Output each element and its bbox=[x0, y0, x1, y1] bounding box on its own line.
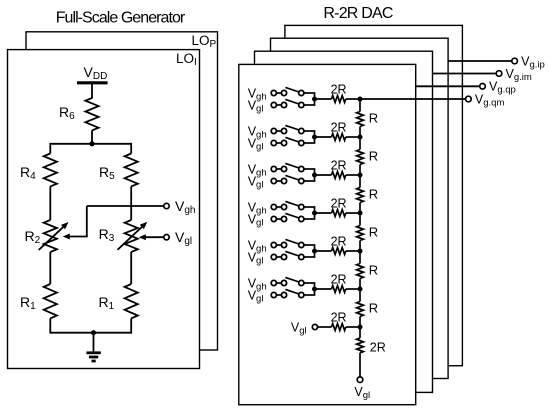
wire switch throw to output bar row 5 (V_gl) bbox=[304, 256, 315, 258]
wire V_gh terminal to switch pole row 6 bbox=[277, 282, 282, 284]
wire ladder segment 2 lower bbox=[359, 165, 361, 176]
box LO_P (outer, full-scale generator P-path) bbox=[26, 32, 218, 350]
ground bbox=[86, 351, 100, 354]
svg-text:R: R bbox=[369, 301, 378, 316]
wire ladder segment 3 bbox=[359, 175, 361, 188]
switch Sgh2 lever row 2 bbox=[285, 125, 299, 130]
wire ladder segment 4 lower bbox=[359, 241, 361, 252]
R3 adjustment arrowhead bbox=[140, 222, 148, 229]
node row 4 bbox=[312, 211, 317, 216]
svg-text:2R: 2R bbox=[331, 197, 347, 211]
svg-text:LOI: LOI bbox=[176, 51, 197, 68]
wire R1 to bottom rail bbox=[49, 318, 51, 333]
wire to 2R row 6 bbox=[315, 288, 332, 290]
svg-text:Full-Scale Generator: Full-Scale Generator bbox=[56, 10, 186, 27]
terminal V_gh row 5 bbox=[271, 242, 276, 247]
node ladder 7 bbox=[358, 325, 363, 330]
resistor 2R row 6 bbox=[332, 286, 346, 293]
wire 2R to ladder row 4 bbox=[346, 212, 360, 214]
wire 2R to ladder row 7 bbox=[346, 326, 360, 328]
switch Sgl5 lever row 5 bbox=[285, 251, 299, 256]
node ladder 3 bbox=[358, 173, 363, 178]
node ladder 2 bbox=[358, 135, 363, 140]
VDD supply bar bbox=[77, 81, 108, 84]
wire V_gh terminal to switch pole row 1 bbox=[277, 92, 282, 94]
wire R1 to bottom rail bbox=[130, 318, 132, 333]
terminal V_gh row 1 bbox=[271, 90, 276, 95]
node row 2 bbox=[312, 135, 317, 140]
svg-text:2R: 2R bbox=[331, 235, 347, 249]
svg-text:Vg.qp: Vg.qp bbox=[489, 80, 516, 96]
resistor 2R bottom bbox=[357, 338, 364, 353]
wire to ground bbox=[93, 333, 95, 352]
wire switch throw to output bar row 3 (V_gl) bbox=[304, 180, 315, 182]
resistor 2R row 1 bbox=[332, 96, 346, 103]
wire switch throw to output bar row 1 (V_gh) bbox=[304, 92, 315, 94]
terminal V_gl row 4 bbox=[271, 216, 276, 221]
terminal Vg.qm bbox=[466, 96, 472, 102]
resistor R1 (left) bbox=[44, 284, 57, 318]
wire switch throw to output bar row 6 (V_gl) bbox=[304, 294, 315, 296]
R2 adjustment arrow bbox=[39, 226, 65, 250]
switch Sgl5 throw row 5 bbox=[299, 254, 304, 259]
wire R5 to R3 bbox=[130, 186, 132, 220]
terminal V_gl row 6 bbox=[271, 292, 276, 297]
wire 2R to ladder row 3 bbox=[346, 174, 360, 176]
wire switch throw to output bar row 4 (V_gh) bbox=[304, 206, 315, 208]
terminal Vg.im bbox=[496, 71, 502, 77]
switch Sgl2 throw row 2 bbox=[299, 140, 304, 145]
switch Sgh3 lever row 3 bbox=[285, 163, 299, 168]
wire 2R to ladder row 1 bbox=[346, 98, 360, 100]
wire V_gl terminal to switch pole row 2 bbox=[277, 142, 282, 144]
svg-text:R: R bbox=[369, 187, 378, 202]
wire ladder to 2R bottom bbox=[359, 327, 361, 338]
wire V_gh terminal to switch pole row 4 bbox=[277, 206, 282, 208]
terminal V_gl row 5 bbox=[271, 254, 276, 259]
terminal V_gh row 6 bbox=[271, 280, 276, 285]
resistor R ladder 4 bbox=[357, 226, 364, 241]
svg-text:2R: 2R bbox=[370, 341, 386, 355]
resistor R1 (right) bbox=[125, 284, 138, 318]
resistor R6 bbox=[85, 98, 98, 130]
wire R2 wiper horizontal bbox=[69, 236, 88, 238]
switch Sgl2 pole row 2 bbox=[281, 140, 286, 145]
terminal V_gl row 2 bbox=[271, 140, 276, 145]
switch Sgl5 pole row 5 bbox=[281, 254, 286, 259]
terminal Vg.ip bbox=[512, 58, 518, 64]
wire 2R to ladder row 5 bbox=[346, 250, 360, 252]
resistor R ladder 1 bbox=[357, 112, 364, 127]
terminal Vg.qp bbox=[480, 84, 486, 90]
resistor R4 bbox=[44, 154, 57, 187]
node ladder 1 bbox=[358, 97, 363, 102]
R2 wiper arrowhead bbox=[63, 234, 70, 240]
switch Sgh4 pole row 4 bbox=[281, 204, 286, 209]
switch Sgh6 pole row 6 bbox=[281, 280, 286, 285]
switch Sgh1 lever row 1 bbox=[285, 87, 299, 92]
switch Sgh2 pole row 2 bbox=[281, 128, 286, 133]
switch Sgh6 throw row 6 bbox=[299, 280, 304, 285]
wire ladder segment 1 bbox=[359, 99, 361, 112]
switch output bar row 3 bbox=[314, 169, 316, 181]
wire R2 to R1 bbox=[49, 252, 51, 284]
node: bottom rail junction bbox=[91, 330, 96, 335]
resistor 2R row 2 bbox=[332, 134, 346, 141]
wire ladder segment 2 bbox=[359, 137, 361, 150]
DAC box layer 2 bbox=[255, 51, 433, 392]
switch Sgh5 lever row 5 bbox=[285, 239, 299, 244]
svg-text:2R: 2R bbox=[331, 121, 347, 135]
switch Sgl6 throw row 6 bbox=[299, 292, 304, 297]
switch Sgh4 throw row 4 bbox=[299, 204, 304, 209]
resistor 2R row 3 bbox=[332, 172, 346, 179]
svg-text:R: R bbox=[369, 263, 378, 278]
R2 adjustment arrowhead bbox=[61, 222, 69, 229]
wire ladder segment 5 lower bbox=[359, 279, 361, 290]
wire VDD to R6 bbox=[91, 83, 93, 99]
resistor R ladder 3 bbox=[357, 188, 364, 203]
wire switch throw to output bar row 2 (V_gh) bbox=[304, 130, 315, 132]
wire to 2R row 1 bbox=[315, 98, 332, 100]
wire output Vg.qm bbox=[360, 98, 465, 100]
node row 1 bbox=[312, 97, 317, 102]
switch output bar row 4 bbox=[314, 207, 316, 219]
wire to 2R row 4 bbox=[315, 212, 332, 214]
terminal V_gl row 7 bbox=[312, 324, 317, 329]
resistor 2R row 7 bbox=[332, 324, 346, 331]
switch Sgh3 pole row 3 bbox=[281, 166, 286, 171]
DAC box layer 4 (back) bbox=[285, 25, 463, 365]
R3 adjustment arrow bbox=[118, 226, 144, 250]
terminal V_gh row 3 bbox=[271, 166, 276, 171]
wire V_gh terminal to switch pole row 3 bbox=[277, 168, 282, 170]
wire to 2R row 3 bbox=[315, 174, 332, 176]
switch output bar row 1 bbox=[314, 93, 316, 105]
wire 2R bottom to terminal bbox=[359, 353, 361, 377]
node row 5 bbox=[312, 249, 317, 254]
wire ladder segment 1 lower bbox=[359, 127, 361, 138]
node ladder 6 bbox=[358, 287, 363, 292]
wire V_gl terminal to switch pole row 1 bbox=[277, 104, 282, 106]
node row 6 bbox=[312, 287, 317, 292]
wire ladder segment 3 lower bbox=[359, 203, 361, 214]
wire top rail to R4 bbox=[49, 143, 51, 154]
switch Sgh1 throw row 1 bbox=[299, 90, 304, 95]
wire V_gh terminal to switch pole row 5 bbox=[277, 244, 282, 246]
switch Sgh1 pole row 1 bbox=[281, 90, 286, 95]
switch Sgl1 lever row 1 bbox=[285, 99, 299, 104]
switch Sgl1 throw row 1 bbox=[299, 102, 304, 107]
terminal V_gh row 2 bbox=[271, 128, 276, 133]
resistor R ladder 2 bbox=[357, 150, 364, 165]
wire top rail to R5 bbox=[130, 143, 132, 154]
wire ladder segment 4 bbox=[359, 213, 361, 226]
wire output Vg.qp bbox=[416, 85, 480, 87]
switch Sgl3 throw row 3 bbox=[299, 178, 304, 183]
resistor R3 (variable) bbox=[125, 220, 138, 252]
switch output bar row 5 bbox=[314, 245, 316, 257]
wire 2R to ladder row 2 bbox=[346, 136, 360, 138]
wire top rail bbox=[50, 143, 131, 145]
node: top rail junction bbox=[89, 141, 94, 146]
switch Sgl6 pole row 6 bbox=[281, 292, 286, 297]
terminal V_gl row 1 bbox=[271, 102, 276, 107]
switch Sgl6 lever row 6 bbox=[285, 289, 299, 294]
svg-text:R-2R DAC: R-2R DAC bbox=[323, 5, 392, 22]
DAC box layer 3 bbox=[271, 38, 449, 378]
wire switch throw to output bar row 1 (V_gl) bbox=[304, 104, 315, 106]
svg-text:2R: 2R bbox=[331, 83, 347, 97]
wire V_gl terminal to switch pole row 3 bbox=[277, 180, 282, 182]
wire V_gh terminal to switch pole row 2 bbox=[277, 130, 282, 132]
resistor 2R row 5 bbox=[332, 248, 346, 255]
terminal V_gl row 3 bbox=[271, 178, 276, 183]
node ladder 5 bbox=[358, 249, 363, 254]
switch Sgl3 pole row 3 bbox=[281, 178, 286, 183]
wire 2R to ladder row 6 bbox=[346, 288, 360, 290]
wire switch throw to output bar row 4 (V_gl) bbox=[304, 218, 315, 220]
wire V_gl terminal to switch pole row 5 bbox=[277, 256, 282, 258]
node row 3 bbox=[312, 173, 317, 178]
wire output Vg.im bbox=[433, 73, 496, 75]
wire bottom rail bbox=[50, 332, 131, 334]
wire V_gl terminal to switch pole row 6 bbox=[277, 294, 282, 296]
wire output Vg.ip bbox=[448, 60, 511, 62]
wire switch throw to output bar row 6 (V_gh) bbox=[304, 282, 315, 284]
switch Sgl4 pole row 4 bbox=[281, 216, 286, 221]
switch Sgh5 pole row 5 bbox=[281, 242, 286, 247]
wire R3 wiper / V_gl bbox=[145, 236, 164, 238]
switch Sgl1 pole row 1 bbox=[281, 102, 286, 107]
wire R6 to top rail bbox=[91, 130, 93, 143]
svg-text:R: R bbox=[369, 225, 378, 240]
DAC box layer 1 (front) bbox=[239, 64, 416, 404]
svg-text:Vg.im: Vg.im bbox=[506, 67, 532, 83]
switch Sgl2 lever row 2 bbox=[285, 137, 299, 142]
wire ladder segment 6 bbox=[359, 289, 361, 302]
wire ladder segment 6 lower bbox=[359, 317, 361, 328]
resistor R ladder 6 bbox=[357, 302, 364, 317]
wire V_gl terminal to switch pole row 4 bbox=[277, 218, 282, 220]
switch Sgh2 throw row 2 bbox=[299, 128, 304, 133]
wire R4 to R2 bbox=[49, 186, 51, 220]
svg-text:Vg.ip: Vg.ip bbox=[521, 54, 545, 70]
switch Sgl4 lever row 4 bbox=[285, 213, 299, 218]
svg-text:2R: 2R bbox=[331, 159, 347, 173]
wire R2 wiper vertical bbox=[86, 206, 88, 237]
wire V_gh tap bbox=[87, 205, 166, 207]
switch Sgh3 throw row 3 bbox=[299, 166, 304, 171]
wire to 2R row 2 bbox=[315, 136, 332, 138]
svg-text:R: R bbox=[369, 111, 378, 126]
svg-text:2R: 2R bbox=[331, 311, 347, 325]
switch output bar row 6 bbox=[314, 283, 316, 295]
wire R3 to R1 bbox=[130, 252, 132, 284]
terminal V_gh row 4 bbox=[271, 204, 276, 209]
wire ladder segment 5 bbox=[359, 251, 361, 264]
wire to 2R row 5 bbox=[315, 250, 332, 252]
terminal V_gl bbox=[164, 235, 169, 240]
R3 wiper arrowhead bbox=[139, 234, 146, 240]
svg-text:2R: 2R bbox=[331, 273, 347, 287]
switch Sgl4 throw row 4 bbox=[299, 216, 304, 221]
terminal V_gh bbox=[164, 203, 169, 208]
resistor R5 bbox=[125, 154, 138, 187]
resistor R ladder 5 bbox=[357, 264, 364, 279]
wire switch throw to output bar row 3 (V_gh) bbox=[304, 168, 315, 170]
resistor 2R row 4 bbox=[332, 210, 346, 217]
box LO_I (inner, full-scale generator I-path) bbox=[8, 50, 200, 369]
resistor R2 (variable) bbox=[44, 220, 57, 252]
switch Sgh5 throw row 5 bbox=[299, 242, 304, 247]
switch Sgl3 lever row 3 bbox=[285, 175, 299, 180]
wire to 2R row 7 bbox=[318, 326, 332, 328]
wire switch throw to output bar row 2 (V_gl) bbox=[304, 142, 315, 144]
switch Sgh4 lever row 4 bbox=[285, 201, 299, 206]
switch output bar row 2 bbox=[314, 131, 316, 143]
terminal V_gl bottom bbox=[357, 377, 363, 383]
node ladder 4 bbox=[358, 211, 363, 216]
svg-text:R: R bbox=[369, 149, 378, 164]
switch Sgh6 lever row 6 bbox=[285, 277, 299, 282]
wire switch throw to output bar row 5 (V_gh) bbox=[304, 244, 315, 246]
